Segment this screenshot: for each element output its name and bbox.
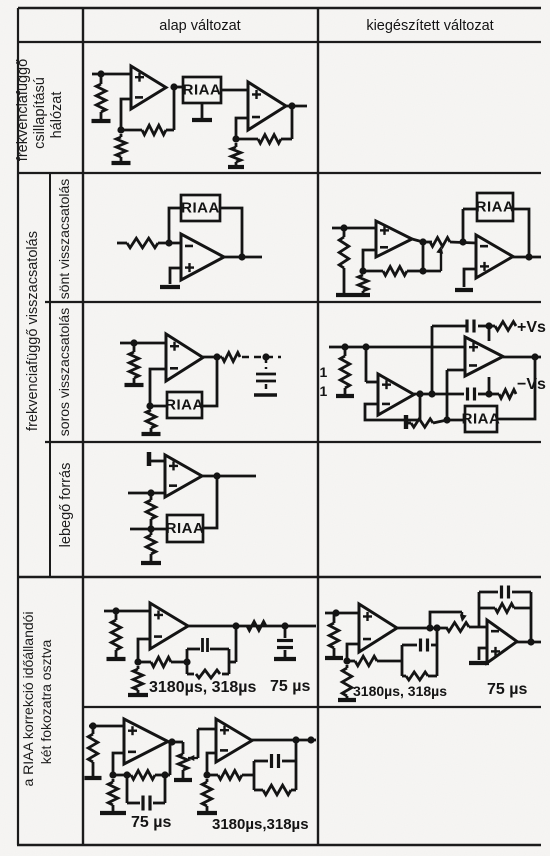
svg-text:frekvenciafüggő visszacsatolás: frekvenciafüggő visszacsatolás <box>25 231 41 431</box>
svg-text:hálózat: hálózat <box>49 92 65 139</box>
svg-text:a RIAA korrekció időállandói: a RIAA korrekció időállandói <box>20 611 36 786</box>
svg-text:RIAA: RIAA <box>183 82 222 99</box>
svg-text:1: 1 <box>320 364 328 380</box>
svg-text:RIAA: RIAA <box>181 200 220 217</box>
svg-text:3180µs,318µs: 3180µs,318µs <box>212 816 309 833</box>
svg-text:frekvenciafüggő: frekvenciafüggő <box>15 59 31 161</box>
svg-text:75 µs: 75 µs <box>487 681 527 698</box>
svg-text:RIAA: RIAA <box>165 397 204 414</box>
svg-text:1: 1 <box>320 383 328 399</box>
svg-text:+Vs: +Vs <box>517 319 546 336</box>
svg-text:RIAA: RIAA <box>462 411 501 428</box>
svg-text:lebegő forrás: lebegő forrás <box>58 463 74 548</box>
svg-text:kiegészített változat: kiegészített változat <box>366 18 493 34</box>
svg-text:soros visszacsatolás: soros visszacsatolás <box>56 308 72 436</box>
svg-text:75 µs: 75 µs <box>270 678 310 695</box>
svg-text:−Vs: −Vs <box>517 376 546 393</box>
svg-text:75 µs: 75 µs <box>131 814 171 831</box>
svg-text:alap változat: alap változat <box>159 18 240 34</box>
svg-text:két fokozatra osztva: két fokozatra osztva <box>38 640 54 765</box>
svg-text:RIAA: RIAA <box>476 199 515 216</box>
svg-text:sönt visszacsatolás: sönt visszacsatolás <box>56 179 72 300</box>
svg-text:csillapítású: csillapítású <box>32 77 48 149</box>
svg-text:3180µs, 318µs: 3180µs, 318µs <box>149 679 257 696</box>
svg-text:3180µs, 318µs: 3180µs, 318µs <box>353 683 447 699</box>
svg-text:RIAA: RIAA <box>166 520 205 537</box>
